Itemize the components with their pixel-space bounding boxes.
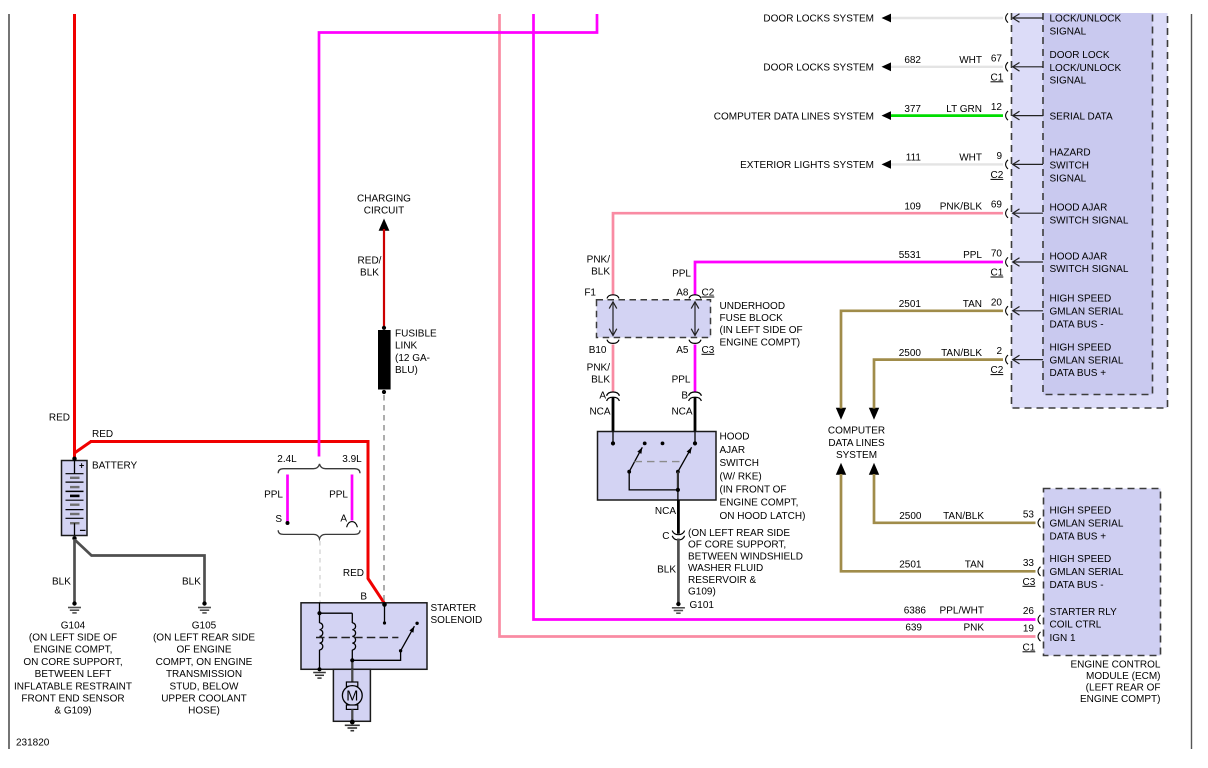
svg-text:26: 26	[1023, 606, 1035, 617]
text UNDERHOOD FUSE BLOCK	[720, 301, 803, 349]
svg-text:A8: A8	[676, 288, 689, 299]
svg-text:682: 682	[904, 55, 921, 66]
wire PPL A5 to connector B	[694, 345, 697, 393]
svg-text:S: S	[275, 514, 282, 525]
svg-text:RED/: RED/	[358, 256, 382, 267]
wire RED horizontal run to starter	[90, 442, 385, 604]
svg-text:TAN: TAN	[965, 560, 984, 571]
svg-text:BLU): BLU)	[395, 365, 418, 376]
svg-text:(ON LEFT REAR SIDE: (ON LEFT REAR SIDE	[153, 633, 255, 644]
svg-text:PPL/WHT: PPL/WHT	[940, 606, 984, 617]
svg-text:(IN LEFT SIDE OF: (IN LEFT SIDE OF	[720, 325, 803, 336]
svg-text:DOOR LOCKS SYSTEM: DOOR LOCKS SYSTEM	[763, 63, 874, 74]
svg-text:HOOD AJAR: HOOD AJAR	[1050, 203, 1108, 214]
svg-text:(12 GA-: (12 GA-	[395, 353, 430, 364]
svg-text:B: B	[681, 391, 688, 402]
svg-text:COMPUTER DATA LINES SYSTEM: COMPUTER DATA LINES SYSTEM	[714, 111, 874, 122]
page right border	[1191, 14, 1193, 749]
svg-text:BETWEEN LEFT: BETWEEN LEFT	[35, 669, 112, 680]
switch arm left	[627, 470, 631, 474]
connector arc A5	[689, 340, 701, 344]
internal wiring	[629, 472, 678, 490]
svg-text:PNK/: PNK/	[587, 363, 611, 374]
svg-text:HIGH SPEED: HIGH SPEED	[1050, 506, 1112, 517]
svg-text:FUSE BLOCK: FUSE BLOCK	[720, 313, 784, 324]
svg-text:DATA BUS -: DATA BUS -	[1050, 580, 1104, 591]
svg-text:ENGINE COMPT,: ENGINE COMPT,	[34, 645, 113, 656]
svg-text:377: 377	[904, 104, 921, 115]
svg-text:HAZARD: HAZARD	[1050, 148, 1091, 159]
row 4: 111 WHT 9 hazard	[740, 148, 1091, 185]
svg-text:F1: F1	[584, 288, 596, 299]
svg-text:DATA BUS +: DATA BUS +	[1050, 368, 1107, 379]
svg-text:(W/ RKE): (W/ RKE)	[720, 471, 762, 482]
svg-text:3.9L: 3.9L	[342, 454, 362, 465]
svg-text:FUSIBLE: FUSIBLE	[395, 329, 437, 340]
svg-text:(LEFT REAR OF: (LEFT REAR OF	[1086, 683, 1161, 694]
svg-text:SWITCH: SWITCH	[720, 458, 759, 469]
svg-text:STUD, BELOW: STUD, BELOW	[170, 681, 239, 692]
svg-text:OF ENGINE: OF ENGINE	[176, 645, 231, 656]
svg-text:G101: G101	[690, 600, 715, 611]
svg-text:LT GRN: LT GRN	[946, 104, 982, 115]
wire BLK battery to G104	[73, 539, 76, 602]
svg-text:33: 33	[1023, 558, 1035, 569]
wire NCA switch to connector C	[677, 500, 680, 534]
row 6: 5531 PPL 70 hood ajar	[899, 249, 1129, 279]
page left border	[8, 14, 10, 749]
wire RED battery feed from top	[73, 14, 76, 458]
starter motor	[333, 669, 370, 730]
svg-text:SWITCH SIGNAL: SWITCH SIGNAL	[1050, 264, 1129, 275]
svg-text:SOLENOID: SOLENOID	[431, 615, 483, 626]
svg-text:TRANSMISSION: TRANSMISSION	[166, 669, 242, 680]
dashed lead brace to solenoid	[319, 541, 321, 603]
arrow down right (2500)	[869, 408, 879, 420]
svg-text:ON HOOD LATCH): ON HOOD LATCH)	[720, 511, 806, 522]
svg-text:EXTERIOR LIGHTS SYSTEM: EXTERIOR LIGHTS SYSTEM	[740, 160, 874, 171]
svg-text:COMPUTER: COMPUTER	[828, 426, 885, 437]
label PNK/BLK at F1	[587, 255, 611, 278]
ground G104	[68, 601, 81, 613]
svg-text:C2: C2	[991, 170, 1004, 181]
label RED/BLK	[358, 256, 382, 279]
svg-text:UNDERHOOD: UNDERHOOD	[720, 301, 786, 312]
svg-text:231820: 231820	[16, 738, 50, 749]
svg-text:TAN/BLK: TAN/BLK	[941, 348, 982, 359]
hood ajar switch	[598, 432, 717, 501]
svg-text:C2: C2	[702, 288, 715, 299]
svg-text:RED: RED	[92, 429, 113, 440]
svg-text:2501: 2501	[899, 560, 922, 571]
svg-text:BETWEEN WINDSHIELD: BETWEEN WINDSHIELD	[688, 551, 803, 562]
svg-text:HOSE): HOSE)	[188, 706, 220, 717]
svg-text:C1: C1	[1023, 642, 1036, 653]
row 2: 682 WHT 67	[763, 50, 1121, 87]
svg-text:OF CORE SUPPORT,: OF CORE SUPPORT,	[688, 540, 786, 551]
text G104 location	[14, 620, 132, 716]
svg-text:TAN: TAN	[963, 299, 982, 310]
wire PPL 5531 from ECM to fuse block C2	[695, 262, 1003, 296]
svg-text:SIGNAL: SIGNAL	[1050, 173, 1087, 184]
row 8: 2500 TAN/BLK 2	[899, 342, 1124, 379]
svg-text:BLK: BLK	[591, 375, 610, 386]
svg-text:& G109): & G109)	[54, 706, 91, 717]
svg-text:PPL: PPL	[329, 490, 348, 501]
svg-text:WHT: WHT	[959, 153, 982, 164]
arrow up left (2501 bottom)	[836, 463, 846, 475]
svg-text:2501: 2501	[899, 299, 922, 310]
svg-text:2: 2	[996, 346, 1002, 357]
svg-text:53: 53	[1023, 509, 1035, 520]
ECM top connector box (cut off at top)	[1012, 13, 1168, 408]
svg-text:(ON LEFT REAR SIDE: (ON LEFT REAR SIDE	[688, 528, 790, 539]
wire PNK/BLK B10 to connector A	[612, 345, 615, 393]
connector arc A	[347, 522, 358, 528]
wire TAN 2501 top	[841, 311, 1003, 409]
svg-text:COMPT, ON ENGINE: COMPT, ON ENGINE	[156, 657, 253, 668]
wire RED branch to horizontal run	[75, 442, 92, 454]
text FUSIBLE LINK	[395, 329, 437, 377]
svg-text:20: 20	[991, 297, 1003, 308]
svg-text:DOOR LOCK: DOOR LOCK	[1050, 50, 1110, 61]
svg-text:DOOR LOCKS SYSTEM: DOOR LOCKS SYSTEM	[763, 14, 874, 25]
svg-text:IGN 1: IGN 1	[1050, 633, 1077, 644]
wire PNK vertical to IGN1	[500, 14, 1036, 637]
internal arrow A8-A5	[694, 304, 696, 335]
svg-text:C2: C2	[991, 365, 1004, 376]
svg-text:GMLAN SERIAL: GMLAN SERIAL	[1050, 519, 1124, 530]
linkage dashed	[635, 461, 680, 463]
ground G101	[672, 602, 685, 613]
svg-text:2500: 2500	[899, 511, 922, 522]
label PNK/BLK lower	[587, 363, 611, 386]
svg-text:ON CORE SUPPORT,: ON CORE SUPPORT,	[23, 657, 122, 668]
svg-text:HIGH SPEED: HIGH SPEED	[1050, 294, 1112, 305]
ECM bottom box	[1044, 489, 1161, 656]
svg-text:UPPER COOLANT: UPPER COOLANT	[161, 694, 247, 705]
wire TAN/BLK 2500 bottom	[874, 474, 1036, 523]
svg-text:RESERVOIR &: RESERVOIR &	[688, 575, 756, 586]
svg-text:HOOD: HOOD	[720, 432, 750, 443]
svg-text:BLK: BLK	[591, 267, 610, 278]
svg-text:PPL: PPL	[672, 375, 691, 386]
svg-text:B10: B10	[589, 345, 607, 356]
wire PPL stub A	[351, 475, 354, 521]
svg-text:B: B	[360, 592, 367, 603]
row 7: 2501 TAN 20	[899, 294, 1124, 331]
svg-text:2.4L: 2.4L	[277, 454, 297, 465]
wire RED/BLK to fusible link	[383, 229, 385, 327]
text CHARGING CIRCUIT	[357, 194, 411, 217]
pin 33	[1023, 554, 1124, 591]
wire BLK to G101	[677, 539, 680, 603]
row 1: door locks lock/unlock	[763, 13, 1121, 37]
svg-text:INFLATABLE RESTRAINT: INFLATABLE RESTRAINT	[14, 681, 132, 692]
svg-text:NCA: NCA	[655, 506, 676, 517]
svg-text:GMLAN SERIAL: GMLAN SERIAL	[1050, 567, 1124, 578]
svg-text:PNK/: PNK/	[587, 255, 611, 266]
svg-text:111: 111	[906, 153, 922, 164]
svg-text:+: +	[79, 461, 84, 471]
svg-text:LOCK/UNLOCK: LOCK/UNLOCK	[1050, 14, 1122, 25]
svg-text:SYSTEM: SYSTEM	[836, 450, 877, 461]
pin 26	[1023, 606, 1117, 631]
text HOOD AJAR SWITCH	[720, 432, 806, 522]
switch arm right	[676, 470, 680, 474]
svg-text:9: 9	[996, 151, 1002, 162]
svg-text:SIGNAL: SIGNAL	[1050, 27, 1087, 38]
svg-text:5531: 5531	[899, 250, 922, 261]
svg-text:GMLAN SERIAL: GMLAN SERIAL	[1050, 307, 1124, 318]
svg-text:67: 67	[991, 53, 1003, 64]
svg-text:STARTER RLY: STARTER RLY	[1050, 607, 1118, 618]
svg-text:TAN/BLK: TAN/BLK	[943, 511, 984, 522]
solenoid switch	[352, 651, 400, 660]
svg-text:HOOD AJAR: HOOD AJAR	[1050, 251, 1108, 262]
pin 19	[1023, 623, 1077, 653]
svg-text:69: 69	[991, 200, 1003, 211]
battery	[62, 457, 138, 541]
svg-text:CIRCUIT: CIRCUIT	[364, 206, 405, 217]
svg-text:BLK: BLK	[52, 577, 71, 588]
connector B	[681, 391, 701, 432]
svg-text:AJAR: AJAR	[720, 445, 746, 456]
solenoid coil 2	[320, 612, 353, 614]
svg-text:MODULE (ECM): MODULE (ECM)	[1086, 671, 1160, 682]
dashed lead from fusible link to solenoid	[383, 395, 385, 603]
svg-text:639: 639	[905, 623, 922, 634]
svg-text:GMLAN SERIAL: GMLAN SERIAL	[1050, 355, 1124, 366]
svg-text:A5: A5	[676, 345, 689, 356]
text ENGINE CONTROL MODULE	[1070, 660, 1160, 706]
svg-text:ENGINE COMPT): ENGINE COMPT)	[720, 337, 801, 348]
svg-text:G105: G105	[192, 620, 217, 631]
svg-text:PPL: PPL	[672, 269, 691, 280]
internal arrow F1-B10	[612, 304, 614, 335]
row 5: 109 PNK/BLK 69 hood ajar	[904, 200, 1129, 227]
wire PPL stub S	[286, 475, 289, 522]
text COMPUTER DATA LINES SYSTEM mid	[828, 426, 885, 461]
svg-text:70: 70	[991, 249, 1003, 260]
svg-text:2500: 2500	[899, 348, 922, 359]
wire PNK/BLK 109 from ECM to fuse block F1	[613, 213, 1003, 295]
svg-text:DATA BUS +: DATA BUS +	[1050, 531, 1107, 542]
text ON LEFT REAR SIDE OF CORE SUPPORT	[688, 528, 803, 598]
svg-text:NCA: NCA	[589, 406, 610, 417]
svg-text:DATA BUS -: DATA BUS -	[1050, 319, 1104, 330]
svg-text:STARTER: STARTER	[431, 603, 477, 614]
svg-text:SERIAL DATA: SERIAL DATA	[1050, 111, 1113, 122]
svg-text:WASHER FLUID: WASHER FLUID	[688, 563, 763, 574]
svg-text:C: C	[662, 531, 669, 542]
svg-text:NCA: NCA	[671, 406, 692, 417]
svg-text:CHARGING: CHARGING	[357, 194, 411, 205]
svg-text:RED: RED	[49, 413, 70, 424]
underhood fuse block	[584, 288, 714, 356]
text G105 location	[153, 620, 255, 716]
svg-text:BLK: BLK	[657, 565, 676, 576]
svg-text:A: A	[340, 514, 347, 525]
starter solenoid	[301, 592, 482, 679]
svg-text:PNK/BLK: PNK/BLK	[940, 201, 983, 212]
connector arc F1	[607, 295, 619, 299]
svg-text:LOCK/UNLOCK: LOCK/UNLOCK	[1050, 63, 1122, 74]
svg-text:M: M	[346, 689, 358, 705]
row 3: 377 LT GRN 12 serial data	[714, 102, 1113, 122]
svg-text:PNK: PNK	[963, 623, 984, 634]
engine variant brace group 2.4L/3.9L	[264, 454, 362, 603]
svg-text:DATA LINES: DATA LINES	[828, 438, 885, 449]
svg-text:WHT: WHT	[959, 55, 982, 66]
wire PPL magenta from top right corner	[319, 14, 597, 457]
svg-text:6386: 6386	[904, 606, 927, 617]
svg-text:PPL: PPL	[264, 490, 283, 501]
wire BLK battery to G105	[75, 540, 205, 602]
svg-text:C1: C1	[991, 268, 1004, 279]
connector arc B10	[607, 340, 619, 344]
svg-text:C1: C1	[991, 72, 1004, 83]
wire PPL/WHT vertical to pin 26	[534, 14, 1036, 620]
svg-text:109: 109	[904, 201, 921, 212]
svg-text:ENGINE CONTROL: ENGINE CONTROL	[1070, 660, 1160, 671]
pin 53	[1023, 506, 1124, 543]
ground G105	[198, 601, 211, 613]
svg-text:COIL CTRL: COIL CTRL	[1050, 620, 1102, 631]
arrow up to charging circuit	[379, 219, 390, 231]
svg-text:A: A	[599, 391, 606, 402]
fusible link F1	[382, 326, 386, 330]
svg-text:(IN FRONT OF: (IN FRONT OF	[720, 485, 787, 496]
solenoid ground	[313, 672, 326, 674]
svg-text:PPL: PPL	[963, 250, 982, 261]
wire TAN 2501 bottom	[841, 474, 1036, 571]
svg-text:RED: RED	[343, 568, 364, 579]
svg-text:HIGH SPEED: HIGH SPEED	[1050, 342, 1112, 353]
svg-text:BLK: BLK	[182, 577, 201, 588]
svg-text:HIGH SPEED: HIGH SPEED	[1050, 554, 1112, 565]
svg-text:BATTERY: BATTERY	[92, 461, 138, 472]
wire TAN/BLK 2500 top	[874, 360, 1003, 409]
svg-text:BLK: BLK	[360, 268, 379, 279]
svg-text:SWITCH: SWITCH	[1050, 160, 1089, 171]
svg-text:−: −	[80, 525, 86, 537]
connector A (двойная arc)	[599, 391, 619, 432]
svg-text:(ON LEFT SIDE OF: (ON LEFT SIDE OF	[29, 633, 117, 644]
svg-text:ENGINE COMPT,: ENGINE COMPT,	[720, 498, 799, 509]
solenoid coil 1	[319, 603, 321, 623]
arrow up right (2500 bottom)	[869, 463, 879, 475]
connector arc A8	[689, 295, 701, 299]
svg-text:FRONT END SENSOR: FRONT END SENSOR	[21, 694, 124, 705]
svg-text:ENGINE COMPT): ENGINE COMPT)	[1080, 694, 1161, 705]
arrow down left (2501)	[836, 408, 846, 420]
svg-text:G104: G104	[61, 620, 86, 631]
svg-text:G109): G109)	[688, 587, 716, 598]
svg-text:C3: C3	[1023, 577, 1036, 588]
svg-text:19: 19	[1023, 623, 1035, 634]
solenoid linkage dashed	[316, 637, 398, 639]
svg-text:LINK: LINK	[395, 341, 418, 352]
svg-text:C3: C3	[702, 345, 715, 356]
connector C	[662, 531, 684, 542]
svg-text:SIGNAL: SIGNAL	[1050, 76, 1087, 87]
svg-text:SWITCH SIGNAL: SWITCH SIGNAL	[1050, 215, 1129, 226]
svg-text:12: 12	[991, 102, 1003, 113]
